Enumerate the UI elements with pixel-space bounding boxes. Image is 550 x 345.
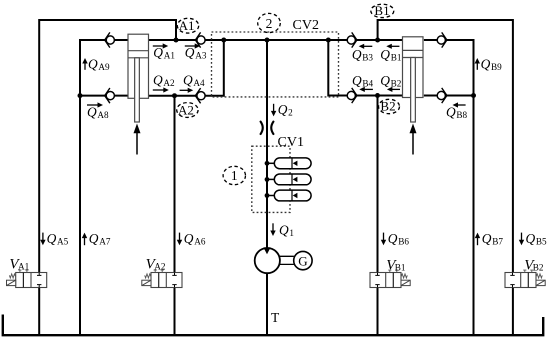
label VA1 <box>9 257 29 273</box>
junction node at (377.5,95.5) <box>375 93 380 98</box>
flow label QB5 <box>519 231 547 247</box>
pilot check valve capsule lower <box>274 190 311 201</box>
node A2 dashed ellipse <box>177 103 198 118</box>
junction node at (267,40) <box>265 38 270 43</box>
electric motor G circle <box>294 251 312 269</box>
svg-text:2: 2 <box>288 107 293 117</box>
tank (open reservoir at bottom) <box>3 315 543 336</box>
cylinder A piston rod <box>135 58 140 122</box>
check valve left loop lower <box>105 88 115 103</box>
svg-text:B2: B2 <box>380 99 395 114</box>
svg-text:A2: A2 <box>178 103 194 118</box>
cylinder B piston rod <box>411 58 416 123</box>
pilot check valve capsule upper <box>274 158 311 169</box>
flow label QB6 <box>381 231 410 247</box>
svg-text:Q: Q <box>352 73 362 88</box>
wire lower-right check valve branch <box>424 95 474 97</box>
svg-text:CV1: CV1 <box>278 135 304 150</box>
flow label QB4 <box>352 73 374 92</box>
svg-text:Q: Q <box>153 72 163 87</box>
pilot check valve capsule middle <box>274 174 311 185</box>
valve VB1 blocked-port T marks <box>375 273 379 288</box>
junction node at (473.5,95.5) <box>471 93 476 98</box>
node 1 dashed circle <box>223 166 245 184</box>
flow label QA2 <box>153 72 175 92</box>
CV1 stub wire to upper <box>267 162 274 164</box>
CV1 stub wire to middle <box>267 178 274 180</box>
valve VB2 spring <box>536 274 542 278</box>
wire VA2 drop line <box>174 96 176 334</box>
node B2 dashed ellipse <box>379 99 400 113</box>
check valve CV2 left upper <box>195 32 205 47</box>
wire node B1 riser with top-right rail and right rail <box>378 20 513 334</box>
wire lower-right line into CV2 <box>328 40 402 96</box>
svg-text:A5: A5 <box>57 236 69 246</box>
valve VB1 upper port stubs <box>388 270 398 272</box>
svg-text:2: 2 <box>266 16 273 31</box>
svg-text:Q: Q <box>526 231 536 246</box>
svg-text:CV2: CV2 <box>293 18 319 33</box>
orifice / throttle on pump suction line <box>261 122 274 134</box>
valve VA2 body <box>151 273 182 288</box>
valve VA1 spring <box>9 274 15 278</box>
junction node at (223.8,40) <box>221 38 226 43</box>
svg-text:Q: Q <box>185 45 195 60</box>
check valve left loop upper <box>105 32 115 47</box>
flow label QA1 <box>153 43 176 60</box>
svg-text:Q: Q <box>380 47 390 62</box>
CV2 dashed enclosure box <box>212 32 339 97</box>
label VB2 <box>524 258 544 274</box>
cylinder A load force arrow <box>134 124 141 155</box>
node B1 dashed ellipse <box>371 4 394 17</box>
svg-text:B3: B3 <box>362 52 373 62</box>
node A1 dashed ellipse <box>177 18 198 33</box>
svg-text:B6: B6 <box>398 236 409 246</box>
svg-text:Q: Q <box>183 72 193 87</box>
valve VA1 solenoid <box>7 280 16 285</box>
pump inlet arrowhead <box>263 247 270 254</box>
svg-text:Q: Q <box>279 223 289 238</box>
valve VB2 body <box>505 273 536 288</box>
svg-text:A1: A1 <box>164 51 176 61</box>
svg-text:B1: B1 <box>391 52 402 62</box>
junction dot at CV1 lower <box>265 193 270 198</box>
valve VB2 blocked-port T marks <box>510 273 514 288</box>
flow label QA4 <box>180 72 205 93</box>
CV1 dashed enclosure box <box>252 146 290 212</box>
svg-text:Q: Q <box>87 104 97 119</box>
svg-text:Q: Q <box>47 231 57 246</box>
wire main upper line cylinder A to cylinder B <box>149 39 403 41</box>
svg-text:B7: B7 <box>492 236 503 246</box>
svg-text:G: G <box>298 253 307 268</box>
svg-text:Q: Q <box>184 231 194 246</box>
svg-text:B4: B4 <box>362 78 373 88</box>
svg-text:A4: A4 <box>193 78 205 88</box>
flow label QB7 <box>475 231 504 247</box>
flow label QA8 <box>87 102 109 120</box>
flow label Q1 <box>270 223 294 239</box>
check valve right loop upper <box>437 32 447 47</box>
check valve CV2 right lower <box>347 88 357 103</box>
valve VA2 upper port stubs <box>154 270 164 272</box>
flow label QA5 <box>40 231 68 247</box>
svg-text:1: 1 <box>231 168 238 183</box>
svg-text:A1: A1 <box>179 18 195 33</box>
valve VB1 solenoid <box>401 280 410 285</box>
label VA2 <box>146 257 166 273</box>
svg-text:Q: Q <box>88 57 98 72</box>
wire right regeneration loop vertical (QB7 line) <box>424 40 474 334</box>
svg-text:T: T <box>271 310 280 325</box>
flow label QA3 <box>185 43 207 60</box>
svg-text:1: 1 <box>289 228 294 238</box>
junction node at (328.3,40) <box>326 38 331 43</box>
svg-text:Q: Q <box>481 57 491 72</box>
svg-text:A1: A1 <box>18 262 30 272</box>
flow label QB1 <box>380 44 402 63</box>
wire pump to tank line <box>266 272 268 334</box>
svg-text:Q: Q <box>380 73 390 88</box>
pump circle <box>255 248 280 273</box>
flow label Q2 <box>271 102 293 118</box>
cylinder A body <box>128 34 149 98</box>
valve VA2 solenoid <box>142 280 151 285</box>
flow label QB2 <box>380 73 402 92</box>
svg-text:A9: A9 <box>98 62 110 72</box>
junction node at (174.5,95.7) <box>172 93 177 98</box>
svg-text:B5: B5 <box>536 236 547 246</box>
svg-text:Q: Q <box>446 104 456 119</box>
junction dot at CV1 middle <box>265 177 270 182</box>
svg-text:B2: B2 <box>533 262 544 272</box>
valve VB2 upper port stubs <box>523 270 533 272</box>
junction node at (80,95.6) <box>78 93 83 98</box>
svg-text:Q: Q <box>89 231 99 246</box>
svg-text:Q: Q <box>482 231 492 246</box>
svg-text:B2: B2 <box>391 78 402 88</box>
flow label QA6 <box>177 231 206 247</box>
junction dot at CV1 upper <box>265 161 270 166</box>
label VB1 <box>386 258 406 274</box>
svg-text:A6: A6 <box>194 236 206 246</box>
svg-text:B9: B9 <box>491 62 502 72</box>
svg-text:B1: B1 <box>395 262 406 272</box>
svg-text:Q: Q <box>352 47 362 62</box>
wire lower-left line into CV2 <box>149 40 224 96</box>
svg-text:Q: Q <box>278 102 288 117</box>
cylinder B load force arrow <box>410 124 417 155</box>
check valve CV2 right upper <box>347 32 357 47</box>
wire lower-left check valve branch <box>80 95 128 97</box>
valve VA1 body <box>16 273 47 288</box>
svg-text:A2: A2 <box>154 262 166 272</box>
svg-text:Q: Q <box>153 45 163 60</box>
flow label QB8 <box>446 102 468 120</box>
svg-text:A3: A3 <box>195 51 207 61</box>
valve VA2 blocked-port T marks <box>172 273 176 288</box>
wire VB1 drop line <box>377 96 379 335</box>
node 2 dashed circle <box>258 13 281 32</box>
valve VB1 body <box>370 273 401 288</box>
valve VB1 spring <box>401 274 407 278</box>
junction node at (377.6,40) <box>375 38 380 43</box>
svg-text:B8: B8 <box>456 110 467 120</box>
cylinder B body <box>403 37 424 98</box>
wire left regeneration loop vertical (QA7 line) <box>80 40 128 334</box>
junction node at (176,40) <box>174 38 179 43</box>
check valve right loop lower <box>437 88 447 103</box>
valve VB2 solenoid <box>536 280 545 285</box>
wire left rail with top-left rail to node A1 riser <box>39 20 176 334</box>
svg-text:Q: Q <box>388 231 398 246</box>
flow label QB3 <box>352 44 374 63</box>
valve VA2 spring <box>145 274 151 278</box>
flow label QB9 <box>475 57 503 73</box>
wire pump suction line (center vertical) <box>266 40 268 250</box>
flow label QA9 <box>82 57 110 73</box>
svg-text:A8: A8 <box>97 110 109 120</box>
flow label QA7 <box>82 231 111 247</box>
svg-text:A7: A7 <box>99 236 111 246</box>
drive shaft double line <box>280 256 294 264</box>
valve VA1 upper port stubs <box>18 270 28 272</box>
svg-text:B1: B1 <box>374 3 389 18</box>
CV1 stub wire to lower <box>267 195 274 197</box>
svg-text:A2: A2 <box>163 78 175 88</box>
valve VA1 blocked-port T marks <box>37 273 41 288</box>
check valve CV2 left lower <box>195 88 205 103</box>
